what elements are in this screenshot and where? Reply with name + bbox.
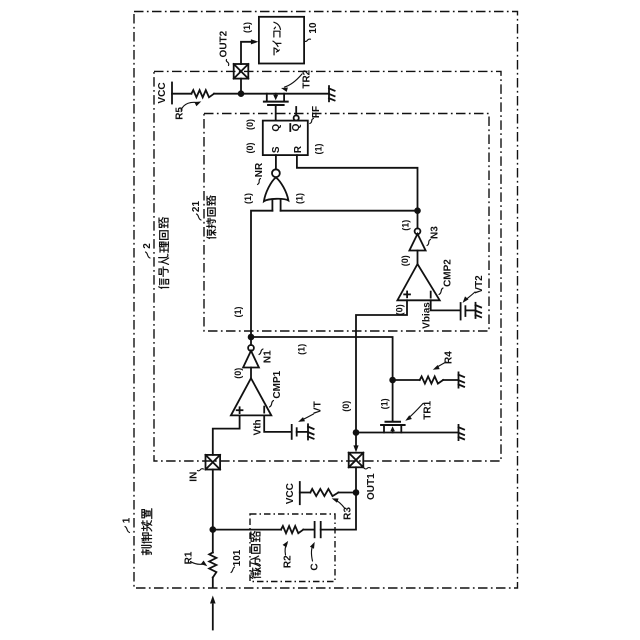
svg-text:(0): (0) [233,368,243,379]
svg-text:N1: N1 [262,350,273,363]
wire R to feedback node [297,155,418,211]
svg-text:CMP2: CMP2 [442,259,453,287]
svg-text:N3: N3 [429,226,440,239]
differentiation circuit label [251,531,261,578]
CMP1 - input wire [264,415,291,432]
terminal OUT1 [349,453,364,468]
CMP2 - input wire [431,300,460,310]
svg-text:(1): (1) [295,193,305,204]
wire NOR right input to node [281,210,418,212]
ground (rail) [329,86,335,101]
resistor R1 [209,553,216,578]
wire R2 to IN node [213,529,281,531]
svg-text:(0): (0) [245,142,255,153]
NOR input stubs [271,200,273,211]
resistor R3 [300,492,311,494]
svg-text:R5: R5 [174,107,185,120]
wire R3 node down to capacitor [321,493,356,530]
svg-text:NR: NR [254,162,265,177]
input line with arrow [212,605,214,630]
transistor TR2 [264,94,288,121]
node: OUT1 junction [353,429,360,436]
svg-text:IN: IN [189,472,200,482]
svg-text:R: R [293,145,304,153]
op-amp CMP1 [231,378,271,415]
resistor R4 [420,376,443,383]
node: R3 junction [353,489,360,496]
svg-text:Vbias: Vbias [421,302,432,329]
inverter N3 [417,211,419,229]
svg-text:10: 10 [308,22,319,34]
svg-text:(1): (1) [401,220,411,231]
CMP1 + input wire to IN [213,415,240,455]
svg-text:21: 21 [191,201,202,213]
svg-text:Vth: Vth [253,419,264,435]
wire OUT2 to microcontroller with arrow [241,42,252,64]
voltage source VT [291,425,293,439]
svg-text:Q: Q [291,123,302,131]
flip-flop FF [263,121,308,156]
node A: junction left vertical [248,334,255,341]
svg-text:(0): (0) [400,255,410,266]
svg-text:TR2: TR2 [301,69,312,88]
svg-text:OUT2: OUT2 [219,30,230,57]
wire C to R2 [303,529,314,531]
svg-text:VT2: VT2 [474,275,485,294]
svg-text:VCC: VCC [285,483,296,504]
svg-text:(0): (0) [245,119,255,130]
svg-text:VT: VT [312,401,323,414]
resistor R5 [191,90,214,97]
capacitor C [320,522,322,537]
node: input junction [210,526,217,533]
svg-text:TR1: TR1 [422,400,433,419]
svg-text:101: 101 [232,549,243,566]
holding circuit box 21 (dash-dot) [204,114,489,332]
svg-text:FF: FF [311,106,322,118]
wire VCC to R5 [172,93,191,95]
wire OUT2 down to rail [240,79,242,94]
svg-text:(1): (1) [233,306,243,317]
svg-text:Q: Q [271,124,282,132]
ground (VT) [308,424,314,439]
transistor TR1 [381,380,405,433]
resistor R2 [281,526,303,533]
node: N3 output junction [414,207,421,214]
CMP2 + input wire [356,300,407,432]
svg-text:CMP1: CMP1 [272,370,283,398]
wire N3 to CMP2 [417,251,419,265]
Qbar open stub [295,107,297,115]
svg-text:2: 2 [142,243,153,249]
microcontroller box 10 [259,17,304,64]
ground (R4) [459,372,465,387]
wire to R1 [212,530,214,553]
wire to R4 [393,379,420,381]
TR1 source/drain rail to ground [356,432,459,434]
VCC power symbol [171,83,173,104]
wire IN down [212,470,214,530]
VCC power symbol (R3) [299,482,301,504]
svg-text:(1): (1) [242,22,252,33]
op-amp CMP2 [397,264,439,300]
ground (VT2) [476,303,482,318]
node: rail junction [238,90,245,97]
differentiation circuit box (dash-dot) [250,514,335,582]
terminal OUT2 [234,64,249,79]
svg-text:VCC: VCC [157,82,168,103]
voltage source VT2 [460,303,462,320]
wire NOR left input down [251,211,272,337]
terminal IN [206,455,221,470]
svg-text:(0): (0) [341,401,351,412]
node: TR1 gate junction [389,377,396,384]
signal processing circuit box 2 (dash-dot) [154,71,501,461]
svg-text:(1): (1) [314,143,324,154]
wire rail R5 to ground (through TR2) [214,93,329,95]
svg-text:1: 1 [122,517,133,523]
wire with arrow into OUT1 [355,433,357,447]
NOR gate NR [272,169,280,177]
svg-text:S: S [271,146,282,153]
control device box 1 (outer dash-dot) [134,12,518,589]
wire OUT1 down [355,467,357,492]
svg-text:(1): (1) [243,193,253,204]
wire node A to TR1 gate net [251,337,393,380]
ground (TR1) [459,425,465,440]
wire S to NOR output [275,155,277,169]
svg-text:C: C [309,563,320,570]
svg-text:(1): (1) [296,344,306,355]
svg-text:(0): (0) [394,304,404,315]
svg-text:R2: R2 [282,555,293,568]
inverter N1 [250,337,252,345]
wire N1 to CMP1 [250,368,252,379]
svg-text:OUT1: OUT1 [366,473,377,500]
svg-text:(1): (1) [380,398,390,409]
svg-text:R3: R3 [342,507,353,520]
